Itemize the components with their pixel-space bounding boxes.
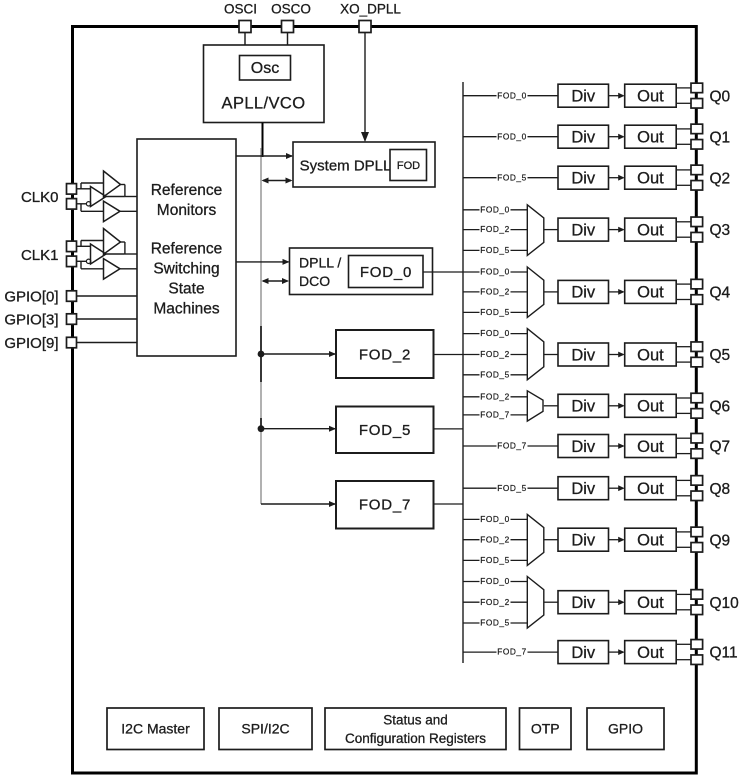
wire Q10 mux output xyxy=(544,601,558,603)
divider Div Q2 xyxy=(558,166,609,189)
svg-text:FOD_7: FOD_7 xyxy=(359,497,411,514)
svg-text:Div: Div xyxy=(571,129,596,147)
block OTP xyxy=(520,708,572,750)
output buffer Out Q4 xyxy=(625,280,677,303)
wire FOD_7 output xyxy=(434,503,464,505)
svg-text:FOD_0: FOD_0 xyxy=(497,131,527,141)
wire net FOD_0 to Q1 divider xyxy=(463,131,558,141)
pin Q6 positive xyxy=(691,393,703,403)
wire CLK0 input to buffers xyxy=(77,183,104,189)
wire Div to Out Q4 xyxy=(609,289,625,295)
wire APLL/VCO output vertical xyxy=(262,123,264,157)
pin CLK1 negative xyxy=(67,256,77,267)
svg-text:Div: Div xyxy=(571,284,596,302)
wire Div to Out Q6 xyxy=(609,403,625,409)
svg-text:Status and: Status and xyxy=(383,713,448,728)
svg-text:System DPLL: System DPLL xyxy=(300,157,392,174)
block Reference Monitors / Switching State Machines xyxy=(137,139,236,356)
svg-text:FOD: FOD xyxy=(397,160,420,172)
svg-text:Q11: Q11 xyxy=(710,645,738,662)
junction to FOD_2 xyxy=(258,351,336,358)
buffer CLK0 middle differential xyxy=(86,187,106,207)
block FOD (System DPLL) xyxy=(390,150,427,181)
divider Div Q9 xyxy=(558,528,609,551)
output buffer Out Q5 xyxy=(625,343,677,366)
svg-text:State: State xyxy=(168,281,204,298)
divider Div Q5 xyxy=(558,343,609,366)
svg-text:FOD_2: FOD_2 xyxy=(480,597,510,607)
output buffer Out Q6 xyxy=(625,394,677,417)
buffer CLK0 lower xyxy=(104,201,121,222)
label GPIO[9] xyxy=(4,335,58,352)
svg-text:Out: Out xyxy=(637,129,664,147)
svg-text:Out: Out xyxy=(637,346,664,364)
pin Q8 positive xyxy=(691,476,703,486)
wire net FOD_0 to Q10 mux xyxy=(463,576,527,586)
wire CLK1 buffer outputs to Reference block xyxy=(106,242,137,269)
svg-text:FOD_0: FOD_0 xyxy=(480,576,510,586)
svg-text:FOD_0: FOD_0 xyxy=(497,90,527,100)
pin Q0 positive xyxy=(691,83,703,93)
wire net FOD_5 to Q8 divider xyxy=(463,483,558,493)
wire Div to Out Q3 xyxy=(609,227,625,233)
wire net FOD_0 to Q9 mux xyxy=(463,514,527,524)
wire Div to Out Q9 xyxy=(609,537,625,543)
mux Q5 xyxy=(527,329,544,380)
wire Q6 mux output xyxy=(544,405,558,407)
pin Q9 positive xyxy=(691,527,703,537)
pin Q10 positive xyxy=(691,590,703,600)
pin Q4 positive xyxy=(691,279,703,289)
pin Q2 positive xyxy=(691,165,703,175)
divider Div Q4 xyxy=(558,280,609,303)
pin Q1 positive xyxy=(691,124,703,133)
wire Q3 mux output xyxy=(544,229,558,231)
wire CLK0 buffer outputs to Reference block xyxy=(106,185,137,212)
divider Div Q1 xyxy=(558,125,609,148)
svg-text:DPLL /: DPLL / xyxy=(299,254,341,270)
wire net FOD_5 to Q3 mux xyxy=(463,245,527,255)
wires Out to pins Q6 xyxy=(676,398,691,413)
wire Reference to System DPLL xyxy=(236,153,293,159)
svg-text:FOD_5: FOD_5 xyxy=(497,172,527,182)
svg-text:Out: Out xyxy=(637,438,664,456)
pin Q7 positive xyxy=(691,433,703,443)
svg-text:GPIO: GPIO xyxy=(608,721,643,737)
svg-text:Q2: Q2 xyxy=(710,170,731,187)
wire Div to Out Q0 xyxy=(609,93,625,99)
svg-text:GPIO[9]: GPIO[9] xyxy=(4,335,58,352)
svg-text:FOD_5: FOD_5 xyxy=(480,369,510,379)
svg-text:Out: Out xyxy=(637,88,664,106)
svg-text:FOD_7: FOD_7 xyxy=(480,410,510,420)
pin GPIO[9] xyxy=(67,337,77,348)
svg-text:Q1: Q1 xyxy=(710,129,731,146)
label Q0 xyxy=(710,88,731,105)
pin Q0 negative xyxy=(691,99,703,109)
wire Div to Out Q10 xyxy=(609,599,625,605)
svg-text:Q6: Q6 xyxy=(710,398,731,415)
block DPLL/DCO xyxy=(290,248,433,295)
divider Div Q10 xyxy=(558,591,609,614)
svg-text:Q8: Q8 xyxy=(710,481,731,498)
label Q8 xyxy=(710,481,731,498)
svg-text:FOD_5: FOD_5 xyxy=(480,555,510,565)
wires Out to pins Q2 xyxy=(676,170,691,185)
pin Q10 negative xyxy=(691,605,703,615)
svg-text:FOD_2: FOD_2 xyxy=(480,224,510,234)
wires Out to pins Q1 xyxy=(676,129,691,144)
block FOD_0 xyxy=(349,256,424,288)
svg-text:FOD_2: FOD_2 xyxy=(480,287,510,297)
svg-text:GPIO[3]: GPIO[3] xyxy=(4,311,58,328)
label Q11 xyxy=(710,645,738,662)
buffer CLK0 upper xyxy=(104,171,121,197)
pin Q1 negative xyxy=(691,140,703,150)
wire net FOD_0 to Q0 divider xyxy=(463,90,558,100)
svg-text:FOD_5: FOD_5 xyxy=(497,483,527,493)
output buffer Out Q3 xyxy=(625,218,677,241)
label GPIO[0] xyxy=(4,288,58,305)
wire System DPLL bidirectional xyxy=(262,178,293,184)
svg-text:FOD_7: FOD_7 xyxy=(497,647,527,657)
wire net FOD_7 to Q11 divider xyxy=(463,647,558,657)
block System DPLL xyxy=(293,142,435,187)
pin Q7 negative xyxy=(691,449,703,459)
pin Q11 negative xyxy=(691,655,703,665)
svg-text:Q5: Q5 xyxy=(710,347,731,364)
pin OSCO xyxy=(282,21,294,33)
pin Q2 negative xyxy=(691,181,703,191)
mux Q10 xyxy=(527,577,544,629)
svg-text:FOD_7: FOD_7 xyxy=(497,441,527,451)
output buffer Out Q2 xyxy=(625,166,677,189)
svg-text:FOD_0: FOD_0 xyxy=(480,267,510,277)
wire GPIO[0] to Reference block xyxy=(77,295,138,297)
wire net FOD_7 to Q6 mux xyxy=(463,410,527,420)
divider Div Q3 xyxy=(558,218,609,241)
block I2C Master xyxy=(107,708,204,750)
svg-text:Switching: Switching xyxy=(153,261,219,278)
svg-text:SPI/I2C: SPI/I2C xyxy=(241,721,289,737)
wire Div to Out Q1 xyxy=(609,134,625,140)
pin Q4 negative xyxy=(691,295,703,305)
svg-text:Out: Out xyxy=(637,284,664,302)
svg-text:Q10: Q10 xyxy=(710,595,740,612)
label XO_DPLL xyxy=(340,2,401,17)
wire net FOD_2 to Q3 mux xyxy=(463,224,527,234)
block FOD_5 xyxy=(336,407,434,454)
svg-text:Osc: Osc xyxy=(251,60,279,77)
wire distribution bus vertical xyxy=(462,82,464,663)
svg-text:Q0: Q0 xyxy=(710,88,731,105)
wire net FOD_2 to Q9 mux xyxy=(463,534,527,544)
svg-text:Div: Div xyxy=(571,346,596,364)
pin XO_DPLL xyxy=(359,21,371,33)
svg-text:OSCO: OSCO xyxy=(271,2,311,17)
svg-text:DCO: DCO xyxy=(299,273,330,289)
divider Div Q6 xyxy=(558,394,609,417)
pin Q5 negative xyxy=(691,357,703,367)
svg-text:APLL/VCO: APLL/VCO xyxy=(222,95,306,113)
pin Q8 negative xyxy=(691,491,703,501)
wire Reference to DPLL/DCO xyxy=(236,259,290,265)
svg-text:FOD_0: FOD_0 xyxy=(360,264,412,281)
wire net FOD_2 to Q5 mux xyxy=(463,349,527,359)
pin CLK0 negative xyxy=(67,199,77,210)
svg-text:FOD_2: FOD_2 xyxy=(480,349,510,359)
output buffer Out Q7 xyxy=(625,435,677,458)
svg-text:FOD_5: FOD_5 xyxy=(480,245,510,255)
svg-text:Out: Out xyxy=(637,644,664,662)
divider Div Q11 xyxy=(558,641,609,664)
svg-text:FOD_5: FOD_5 xyxy=(359,422,411,439)
svg-text:CLK1: CLK1 xyxy=(21,247,59,264)
svg-text:FOD_0: FOD_0 xyxy=(480,514,510,524)
label Q10 xyxy=(710,595,740,612)
svg-text:I2C Master: I2C Master xyxy=(121,721,190,737)
wire Div to Out Q11 xyxy=(609,649,625,655)
pin GPIO[3] xyxy=(67,314,77,325)
pin Q11 positive xyxy=(691,640,703,650)
wire net FOD_2 to Q10 mux xyxy=(463,597,527,607)
mux Q3 xyxy=(527,205,544,256)
output buffer Out Q1 xyxy=(625,125,677,148)
svg-text:FOD_0: FOD_0 xyxy=(480,328,510,338)
svg-text:FOD_5: FOD_5 xyxy=(480,307,510,317)
wires Out to pins Q0 xyxy=(676,88,691,103)
label GPIO[3] xyxy=(4,311,58,328)
wires Out to pins Q9 xyxy=(676,532,691,547)
divider Div Q0 xyxy=(558,84,609,107)
wires Out to pins Q7 xyxy=(676,438,691,453)
svg-text:Monitors: Monitors xyxy=(157,202,217,219)
wires Out to pins Q11 xyxy=(676,644,691,659)
wire net FOD_0 to Q5 mux xyxy=(463,328,527,338)
output buffer Out Q11 xyxy=(625,641,677,664)
svg-text:Div: Div xyxy=(571,480,596,498)
svg-text:Q9: Q9 xyxy=(710,532,731,549)
svg-text:Out: Out xyxy=(637,594,664,612)
wire net FOD_2 to Q6 mux xyxy=(463,391,527,401)
svg-text:FOD_0: FOD_0 xyxy=(480,204,510,214)
divider Div Q8 xyxy=(558,477,609,500)
junction to FOD_5 xyxy=(258,425,336,432)
wires Out to pins Q4 xyxy=(676,284,691,299)
label Q6 xyxy=(710,398,731,415)
label Q9 xyxy=(710,532,731,549)
wire Div to Out Q7 xyxy=(609,443,625,449)
svg-text:Div: Div xyxy=(571,594,596,612)
svg-text:Div: Div xyxy=(571,644,596,662)
pin Q6 negative xyxy=(691,409,703,419)
mux Q6 xyxy=(527,391,543,421)
wire OSCI to APLL/VCO xyxy=(244,33,246,46)
pin Q3 positive xyxy=(691,217,703,227)
svg-text:OTP: OTP xyxy=(531,721,560,737)
wire net FOD_5 to Q9 mux xyxy=(463,555,527,565)
pin CLK0 positive xyxy=(67,184,77,195)
wire XO_DPLL to System DPLL xyxy=(361,33,369,143)
wire OSCO to APLL/VCO xyxy=(287,33,289,46)
svg-text:Out: Out xyxy=(637,170,664,188)
svg-text:Configuration Registers: Configuration Registers xyxy=(345,731,486,746)
output buffer Out Q10 xyxy=(625,591,677,614)
wire to FOD_7 xyxy=(261,501,336,507)
wires Out to pins Q8 xyxy=(676,480,691,495)
block SPI/I2C xyxy=(219,708,312,750)
block Osc xyxy=(240,56,291,81)
block FOD_7 xyxy=(336,481,434,529)
block APLL/VCO xyxy=(204,45,325,123)
wire net FOD_2 to Q4 mux xyxy=(463,287,527,297)
wire Q5 mux output xyxy=(544,354,558,356)
svg-text:FOD_2: FOD_2 xyxy=(480,534,510,544)
svg-text:Div: Div xyxy=(571,398,596,416)
buffer CLK1 upper xyxy=(104,229,121,255)
wire Q9 mux output xyxy=(544,539,558,541)
label Q2 xyxy=(710,170,731,187)
wire DPLL/DCO bidirectional xyxy=(262,278,290,284)
svg-text:Out: Out xyxy=(637,221,664,239)
svg-text:Div: Div xyxy=(571,88,596,106)
wire net FOD_5 to Q10 mux xyxy=(463,618,527,628)
buffer CLK1 lower xyxy=(104,259,121,280)
svg-text:GPIO[0]: GPIO[0] xyxy=(4,288,58,305)
block Status and Configuration Registers xyxy=(325,708,506,750)
svg-text:Machines: Machines xyxy=(153,301,220,318)
wire Div to Out Q5 xyxy=(609,352,625,358)
output buffer Out Q9 xyxy=(625,528,677,551)
wires Out to pins Q3 xyxy=(676,222,691,237)
svg-text:OSCI: OSCI xyxy=(224,2,257,17)
pin Q9 negative xyxy=(691,543,703,553)
wire net FOD_5 to Q2 divider xyxy=(463,172,558,182)
wire net FOD_7 to Q7 divider xyxy=(463,441,558,451)
wires Out to pins Q10 xyxy=(676,594,691,609)
label Q3 xyxy=(710,222,731,239)
label OSCO xyxy=(271,2,311,17)
svg-text:Reference: Reference xyxy=(151,241,223,258)
block FOD_2 xyxy=(336,330,434,378)
wire FOD_5 output xyxy=(434,428,464,430)
label Q4 xyxy=(710,285,731,302)
svg-text:Q7: Q7 xyxy=(710,439,731,456)
output buffer Out Q8 xyxy=(625,477,677,500)
wire net FOD_5 to Q4 mux xyxy=(463,307,527,317)
label CLK1 xyxy=(21,247,59,264)
buffer CLK1 middle differential xyxy=(86,244,106,264)
svg-text:FOD_2: FOD_2 xyxy=(480,391,510,401)
wire net FOD_0 to Q3 mux xyxy=(463,204,527,214)
svg-text:Out: Out xyxy=(637,532,664,550)
svg-text:Div: Div xyxy=(571,170,596,188)
wire Div to Out Q2 xyxy=(609,175,625,181)
wires Out to pins Q5 xyxy=(676,347,691,362)
svg-text:CLK0: CLK0 xyxy=(21,189,59,206)
svg-text:Reference: Reference xyxy=(151,182,223,199)
mux Q4 xyxy=(527,267,544,317)
wire nCLK0 input to buffers xyxy=(77,204,104,212)
pin OSCI xyxy=(239,21,251,33)
label Q7 xyxy=(710,439,731,456)
pin CLK1 positive xyxy=(67,241,77,252)
output buffer Out Q0 xyxy=(625,84,677,107)
wire net FOD_0 to Q4 mux xyxy=(463,267,527,277)
block GPIO xyxy=(587,708,664,750)
label Q1 xyxy=(710,129,731,146)
wire nCLK1 input to buffers xyxy=(77,261,104,269)
divider Div Q7 xyxy=(558,435,609,458)
wire GPIO[3] to Reference block xyxy=(77,318,138,320)
wire vertical bus to FODs xyxy=(260,148,262,504)
svg-text:Q4: Q4 xyxy=(710,285,731,302)
wire GPIO[9] to Reference block xyxy=(77,342,138,344)
svg-text:FOD_5: FOD_5 xyxy=(480,618,510,628)
svg-text:FOD_2: FOD_2 xyxy=(359,347,411,364)
svg-text:Div: Div xyxy=(571,532,596,550)
label Q5 xyxy=(710,347,731,364)
label CLK0 xyxy=(21,189,59,206)
svg-text:Q3: Q3 xyxy=(710,222,731,239)
label OSCI xyxy=(224,2,257,17)
wire Q4 mux output xyxy=(544,291,558,293)
svg-text:Div: Div xyxy=(571,438,596,456)
wire CLK1 input to buffers xyxy=(77,241,104,247)
svg-text:XO_DPLL: XO_DPLL xyxy=(340,2,401,17)
pin GPIO[0] xyxy=(67,291,77,302)
svg-text:Out: Out xyxy=(637,480,664,498)
wire Div to Out Q8 xyxy=(609,485,625,491)
svg-text:Div: Div xyxy=(571,221,596,239)
svg-text:Out: Out xyxy=(637,398,664,416)
pin Q3 negative xyxy=(691,232,703,242)
mux Q9 xyxy=(527,514,544,565)
wire FOD_2 output xyxy=(434,354,464,356)
wire FOD_0 output xyxy=(423,271,463,273)
wire net FOD_5 to Q5 mux xyxy=(463,369,527,379)
pin Q5 positive xyxy=(691,342,703,352)
